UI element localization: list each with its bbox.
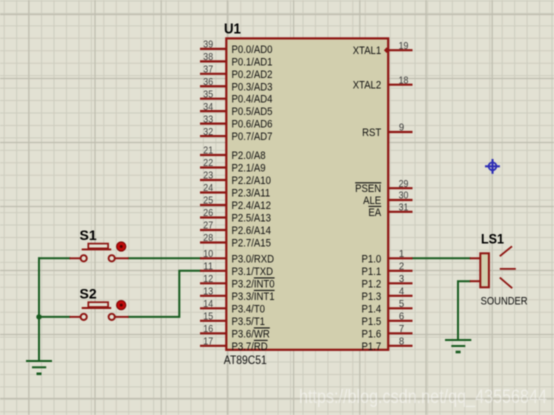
svg-text:P1.4: P1.4: [362, 303, 382, 315]
svg-text:18: 18: [399, 74, 409, 86]
svg-text:P3.3/INT1: P3.3/INT1: [232, 291, 275, 303]
svg-text:https://blog.csdn.net/qq_43556: https://blog.csdn.net/qq_43556844: [299, 387, 547, 408]
svg-text:P1.6: P1.6: [362, 328, 382, 340]
svg-text:P0.1/AD1: P0.1/AD1: [232, 56, 273, 68]
svg-text:29: 29: [399, 178, 409, 190]
svg-text:16: 16: [203, 323, 213, 335]
svg-text:32: 32: [203, 126, 213, 138]
svg-text:12: 12: [203, 273, 213, 285]
svg-text:P0.7/AD7: P0.7/AD7: [232, 131, 273, 143]
svg-text:23: 23: [203, 170, 213, 182]
svg-text:P2.2/A10: P2.2/A10: [232, 175, 271, 187]
svg-text:S1: S1: [80, 227, 97, 243]
svg-text:1: 1: [399, 248, 404, 260]
svg-text:P0.6/AD6: P0.6/AD6: [232, 119, 273, 131]
svg-text:S2: S2: [80, 286, 97, 302]
svg-text:15: 15: [203, 311, 213, 323]
svg-text:P3.1/TXD: P3.1/TXD: [232, 266, 274, 278]
svg-text:P0.3/AD3: P0.3/AD3: [232, 81, 273, 93]
svg-text:4: 4: [399, 286, 404, 298]
svg-text:P2.6/A14: P2.6/A14: [232, 225, 271, 237]
svg-text:35: 35: [203, 88, 213, 100]
svg-text:P2.7/A15: P2.7/A15: [232, 238, 271, 250]
svg-text:39: 39: [203, 39, 213, 51]
svg-text:P2.0/A8: P2.0/A8: [232, 150, 266, 162]
svg-text:25: 25: [203, 195, 213, 207]
svg-text:30: 30: [399, 190, 409, 202]
svg-text:P1.5: P1.5: [362, 316, 382, 328]
svg-text:P0.5/AD5: P0.5/AD5: [232, 106, 273, 118]
svg-text:28: 28: [203, 232, 213, 244]
svg-text:21: 21: [203, 145, 213, 157]
svg-text:17: 17: [203, 336, 213, 348]
svg-text:14: 14: [203, 298, 213, 310]
svg-text:37: 37: [203, 64, 213, 76]
svg-text:P1.7: P1.7: [362, 341, 382, 353]
svg-text:U1: U1: [224, 21, 241, 38]
svg-text:ALE: ALE: [363, 195, 381, 207]
svg-text:3: 3: [399, 273, 404, 285]
svg-text:33: 33: [203, 113, 213, 125]
svg-text:SOUNDER: SOUNDER: [481, 295, 528, 307]
svg-text:9: 9: [399, 122, 404, 134]
svg-text:PSEN: PSEN: [355, 183, 381, 195]
svg-text:22: 22: [203, 157, 213, 169]
svg-text:6: 6: [399, 311, 404, 323]
svg-text:P3.2/INT0: P3.2/INT0: [232, 278, 275, 290]
svg-text:AT89C51: AT89C51: [224, 355, 267, 367]
svg-text:P3.6/WR: P3.6/WR: [232, 328, 270, 340]
svg-text:27: 27: [203, 220, 213, 232]
svg-text:P2.4/A12: P2.4/A12: [232, 200, 271, 212]
svg-text:P1.2: P1.2: [362, 278, 382, 290]
svg-text:26: 26: [203, 207, 213, 219]
svg-text:31: 31: [399, 202, 409, 214]
svg-text:LS1: LS1: [481, 232, 504, 247]
svg-text:P0.4/AD4: P0.4/AD4: [232, 94, 273, 106]
svg-text:24: 24: [203, 182, 213, 194]
svg-text:P3.7/RD: P3.7/RD: [232, 341, 268, 353]
svg-text:5: 5: [399, 298, 404, 310]
svg-text:P1.1: P1.1: [362, 266, 382, 278]
svg-text:P2.1/A9: P2.1/A9: [232, 163, 266, 175]
svg-text:P3.0/RXD: P3.0/RXD: [232, 253, 275, 265]
svg-text:EA: EA: [368, 207, 381, 219]
svg-text:2: 2: [399, 261, 404, 273]
svg-text:P1.3: P1.3: [362, 291, 382, 303]
svg-text:P1.0: P1.0: [362, 253, 382, 265]
svg-text:XTAL1: XTAL1: [353, 45, 382, 57]
svg-text:P2.5/A13: P2.5/A13: [232, 213, 271, 225]
svg-text:P0.2/AD2: P0.2/AD2: [232, 69, 273, 81]
svg-text:XTAL2: XTAL2: [353, 80, 382, 92]
svg-text:P2.3/A11: P2.3/A11: [232, 188, 271, 200]
svg-text:8: 8: [399, 336, 404, 348]
svg-text:10: 10: [203, 248, 213, 260]
svg-text:34: 34: [203, 101, 213, 113]
svg-text:38: 38: [203, 51, 213, 63]
svg-text:11: 11: [203, 261, 213, 273]
svg-text:P0.0/AD0: P0.0/AD0: [232, 44, 273, 56]
svg-text:19: 19: [399, 40, 409, 52]
svg-text:RST: RST: [362, 127, 381, 139]
svg-text:36: 36: [203, 76, 213, 88]
svg-text:P3.4/T0: P3.4/T0: [232, 303, 266, 315]
svg-text:7: 7: [399, 323, 404, 335]
svg-text:13: 13: [203, 286, 213, 298]
svg-text:P3.5/T1: P3.5/T1: [232, 316, 266, 328]
